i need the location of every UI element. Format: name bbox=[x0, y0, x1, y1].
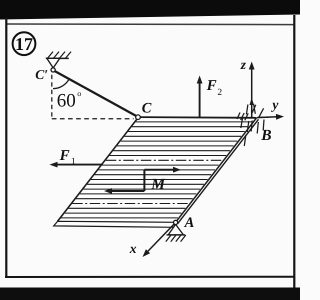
x axis bbox=[147, 223, 175, 252]
angle arc 60 deg bbox=[53, 79, 69, 89]
pin C bbox=[136, 115, 141, 120]
y axis bbox=[257, 116, 277, 119]
dashed horizontal to C bbox=[52, 118, 134, 120]
rod C'C bbox=[55, 71, 137, 116]
support triangle at B bbox=[259, 108, 269, 117]
support hatching at C' bbox=[48, 52, 72, 59]
support base line at A bbox=[167, 234, 186, 236]
z axis mid arrowhead bbox=[250, 98, 255, 105]
svg-text:60: 60 bbox=[57, 90, 76, 111]
svg-text:A: A bbox=[184, 215, 195, 231]
svg-text:B: B bbox=[260, 127, 271, 144]
support triangle at C' bbox=[47, 58, 60, 68]
plate top edge bbox=[139, 116, 257, 119]
problem number badge 17 bbox=[13, 32, 36, 55]
support hatching at B (below y axis) bbox=[241, 119, 264, 147]
svg-text:C′: C′ bbox=[35, 67, 48, 82]
plate hatch lines bbox=[61, 122, 252, 218]
svg-text:M: M bbox=[150, 176, 166, 193]
frame: right border bbox=[293, 15, 295, 288]
dashed vertical from C' bbox=[51, 75, 53, 119]
support hatching at B (left of corner, above edge) bbox=[237, 104, 256, 120]
plate right edge (double line) bbox=[176, 118, 257, 223]
force F1 arrow bbox=[57, 164, 104, 166]
pin A bbox=[174, 220, 178, 224]
plate left edge bbox=[58, 117, 139, 221]
force F2 arrow bbox=[199, 83, 201, 118]
frame: thin rule under band bbox=[6, 23, 294, 26]
svg-text:2: 2 bbox=[217, 88, 222, 98]
plate (parallelogram slab) bbox=[58, 117, 257, 222]
z axis bbox=[251, 69, 253, 118]
frame: top black band bbox=[0, 0, 300, 20]
support hatching at A bbox=[166, 235, 186, 242]
svg-text:F: F bbox=[206, 78, 217, 94]
plate bottom thickness band bbox=[54, 221, 176, 227]
support triangle at A bbox=[168, 224, 183, 235]
frame: bottom black band bbox=[0, 288, 300, 300]
svg-text:1: 1 bbox=[71, 157, 76, 167]
svg-text:17: 17 bbox=[15, 34, 33, 54]
svg-text:z: z bbox=[240, 57, 247, 72]
svg-text:x: x bbox=[129, 241, 137, 256]
svg-text:y: y bbox=[270, 97, 279, 112]
support ceiling line at C' bbox=[46, 57, 69, 59]
frame: left border bbox=[5, 18, 7, 278]
frame: bottom rule bbox=[5, 276, 295, 278]
svg-text:o: o bbox=[77, 89, 81, 98]
svg-text:F: F bbox=[59, 148, 70, 164]
pin C' bbox=[51, 68, 55, 72]
moment M couple arrows bbox=[143, 170, 145, 191]
svg-text:C: C bbox=[142, 100, 152, 116]
